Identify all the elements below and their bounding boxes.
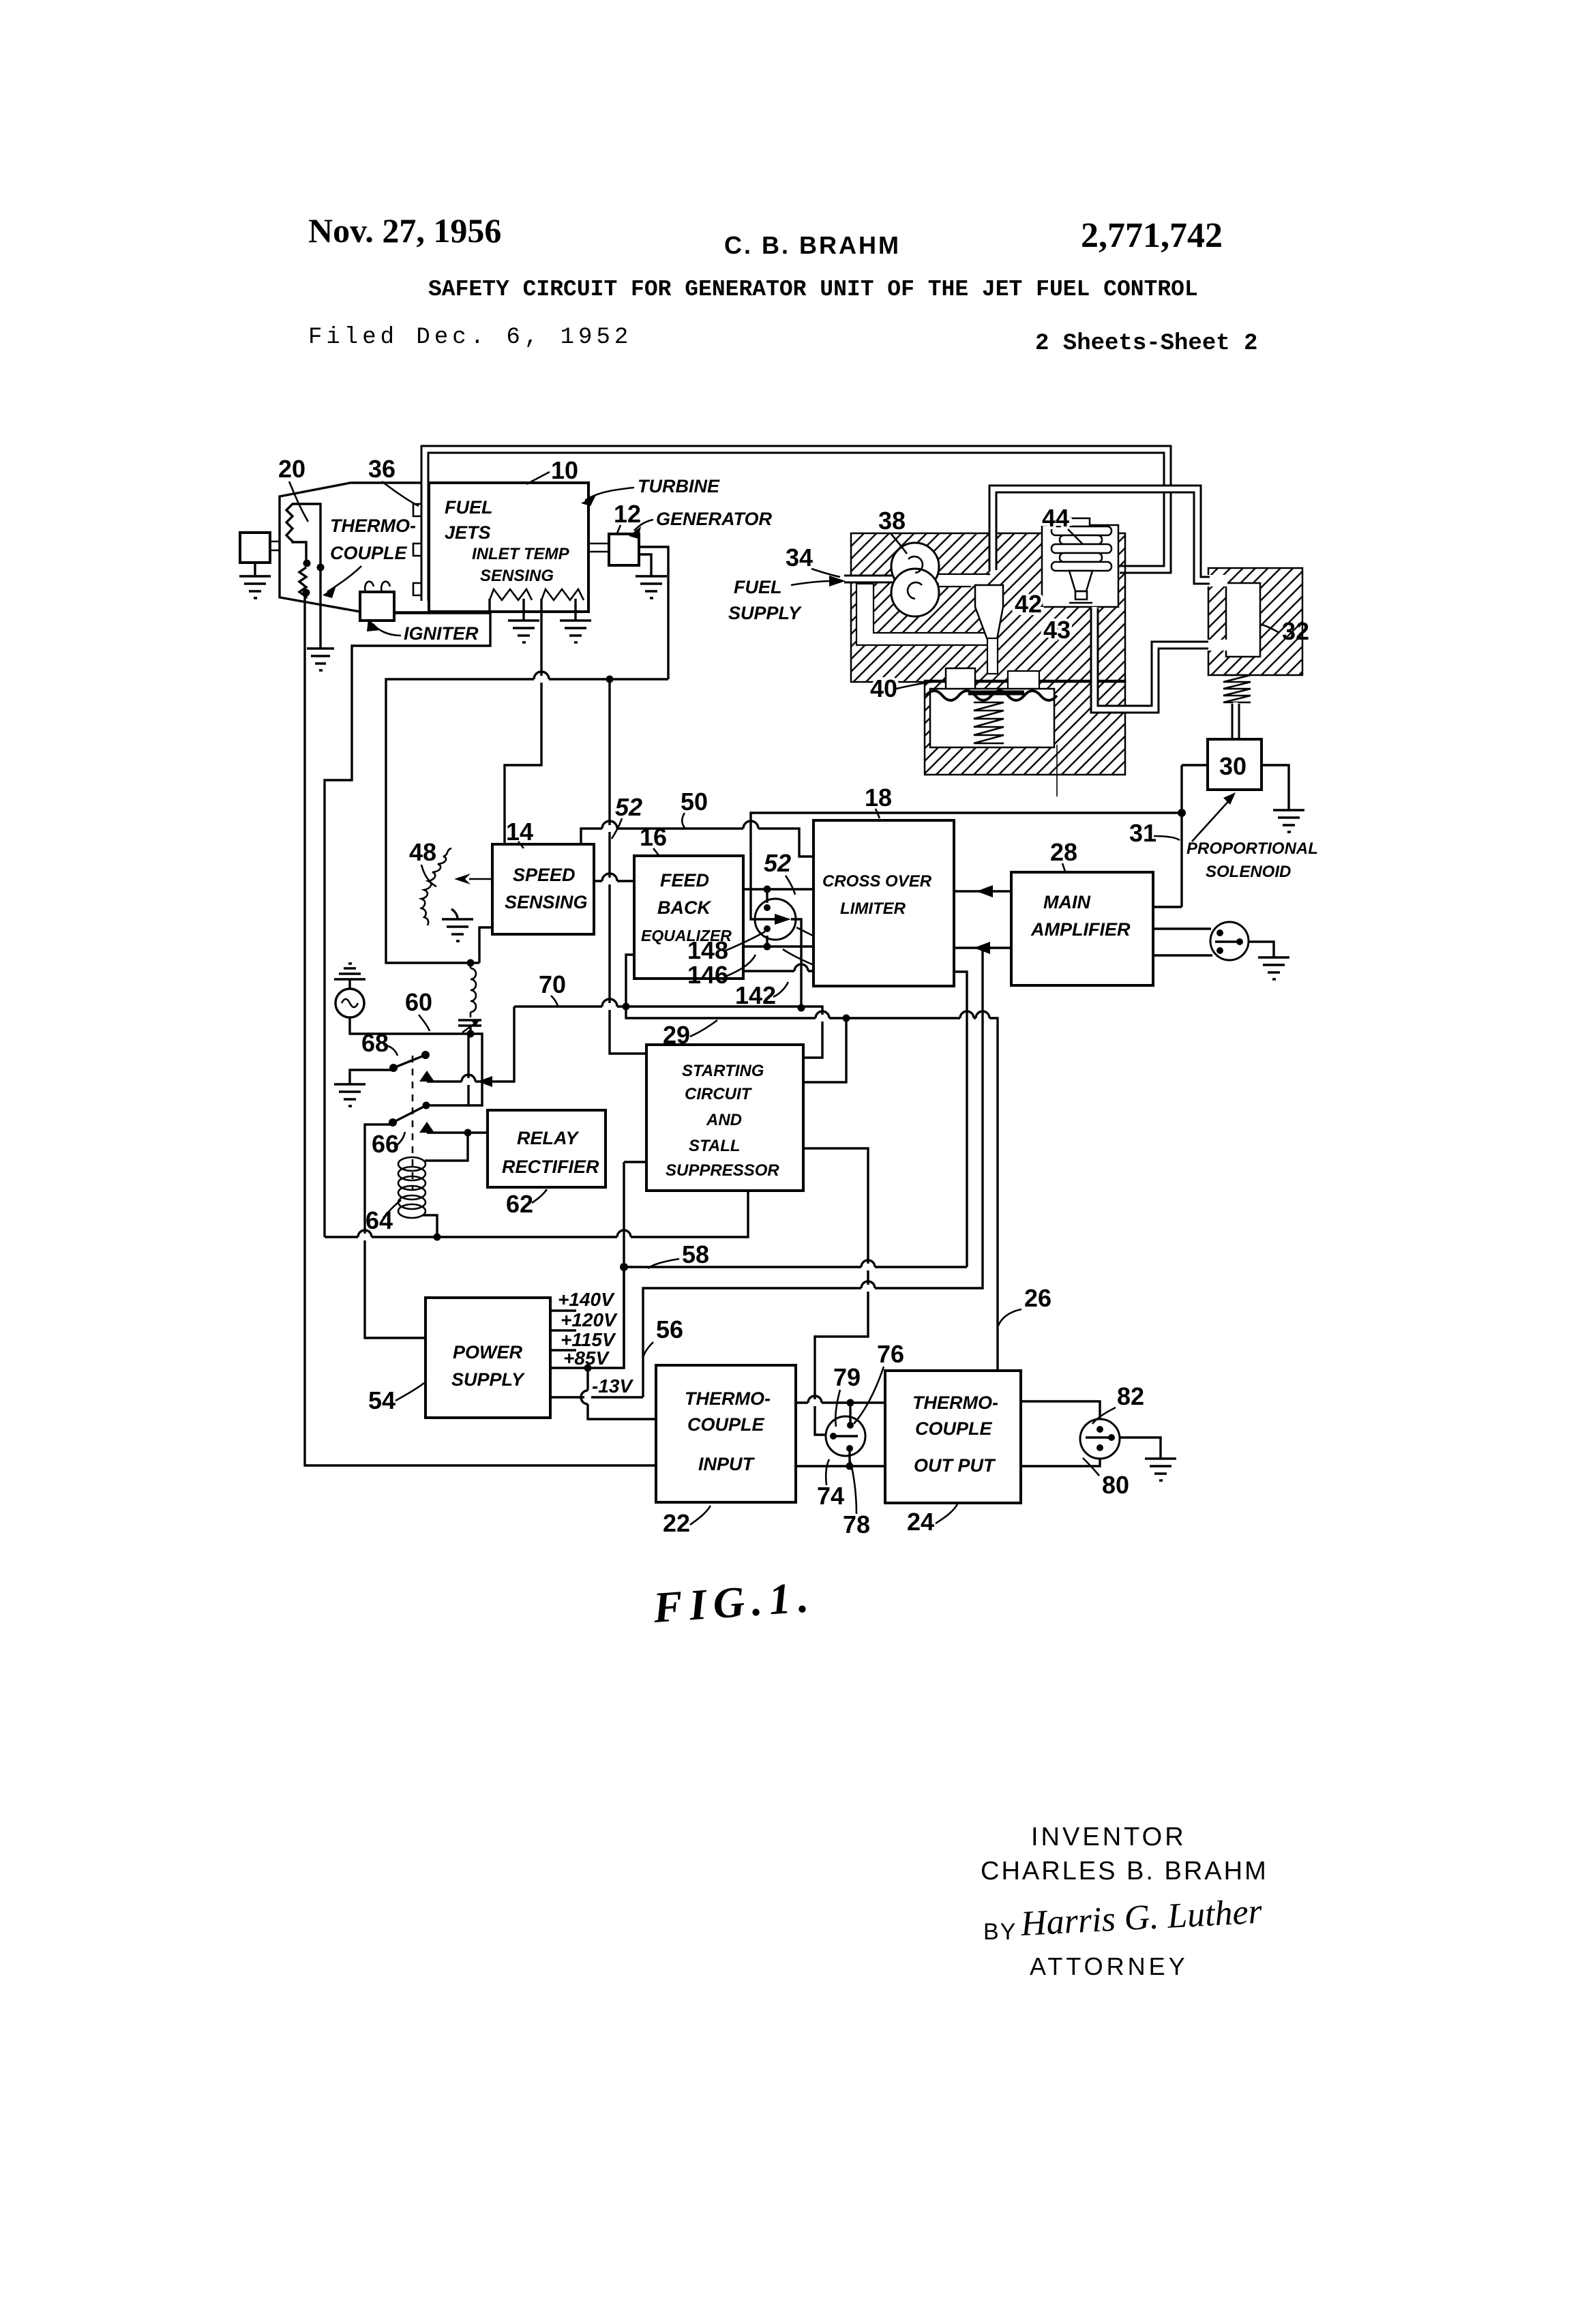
svg-text:16: 16 [640, 823, 667, 851]
wire 52: generator output down to starting circuit [386, 547, 668, 963]
proportional solenoid box 30 [1208, 739, 1262, 790]
svg-text:Nov. 27, 1956: Nov. 27, 1956 [308, 211, 501, 250]
hop: 50 line over grid riser [743, 821, 758, 832]
svg-text:32: 32 [1282, 617, 1309, 645]
svg-text:RELAY: RELAY [517, 1128, 580, 1148]
ground (pot 48) [442, 919, 473, 941]
svg-text:36: 36 [368, 455, 395, 483]
hop: 68 wire over capacitor leg [462, 1075, 475, 1085]
main amplifier box 28 [1011, 872, 1153, 985]
svg-text:FUEL: FUEL [734, 577, 782, 597]
hop: 996 line over sensing tap [534, 672, 549, 683]
generator box 12 [609, 534, 639, 565]
svg-text:78: 78 [843, 1510, 870, 1538]
fuel inlet pipe 34 [843, 575, 893, 584]
svg-text:18: 18 [865, 784, 892, 811]
hop: +85 branch over -13V line [581, 1390, 591, 1404]
wire 58 [624, 1266, 967, 1268]
wire: output box to tube 80 upper [1021, 1401, 1100, 1421]
svg-text:Filed Dec. 6, 1952: Filed Dec. 6, 1952 [308, 325, 632, 351]
wire: solenoid right lead to ground [1262, 765, 1289, 810]
spring of servo 32 [1223, 675, 1251, 702]
svg-text:62: 62 [506, 1190, 533, 1218]
capacitor (variable) [458, 1020, 481, 1034]
servo slot of 32 [1226, 583, 1260, 657]
svg-text:54: 54 [368, 1386, 395, 1414]
wire: pot 48 to ground [451, 909, 458, 919]
svg-text:142: 142 [735, 981, 776, 1009]
solenoid arrow [1192, 798, 1232, 841]
ground (generator) [636, 576, 667, 598]
svg-text:44: 44 [1042, 504, 1069, 532]
svg-text:COUPLE: COUPLE [687, 1414, 765, 1435]
svg-text:POWER: POWER [453, 1342, 523, 1362]
svg-text:SUPPLY: SUPPLY [451, 1369, 526, 1390]
ground (solenoid 30) [1273, 810, 1304, 832]
wire: relay coil bottom to line 58 feed [423, 1215, 437, 1237]
svg-text:2,771,742: 2,771,742 [1081, 216, 1223, 255]
inductor (speed filter) [467, 959, 475, 967]
igniter plug [360, 592, 394, 621]
wire: crossover to amplifier upper with arrow [954, 890, 1011, 892]
wire: equalizer to crossover mid [743, 945, 814, 947]
igniter electrode curls [365, 582, 390, 592]
hop: 50 line over generator lead [602, 821, 617, 832]
svg-text:LIMITER: LIMITER [840, 899, 906, 918]
svg-text:COUPLE: COUPLE [915, 1418, 993, 1439]
hop: 56 over thermo riser [861, 1281, 875, 1292]
fuel pipe 36 manifold and supply pipe (double line) [425, 449, 1167, 602]
wire: relay coil to contact wire [425, 1133, 468, 1161]
wire: igniter feed down-left to relay line [325, 613, 490, 1237]
svg-text:SPEED: SPEED [513, 865, 576, 885]
wire 56 entry stub: relay line vertical [624, 1162, 646, 1368]
tube 80/82 [1080, 1419, 1120, 1459]
svg-text:SAFETY CIRCUIT FOR GENERATOR U: SAFETY CIRCUIT FOR GENERATOR UNIT OF THE… [428, 277, 1198, 302]
wire: box ground stem [254, 563, 256, 576]
svg-text:RECTIFIER: RECTIFIER [502, 1157, 599, 1177]
fuel jet nozzle notches on manifold 36 [413, 504, 421, 595]
thermocouple 20 probe body [286, 504, 320, 604]
svg-text:CHARLES B. BRAHM: CHARLES B. BRAHM [981, 1857, 1268, 1886]
spring chamber [930, 689, 1054, 747]
wire: amplifier output riser to solenoid node [1153, 765, 1182, 907]
hop: 58 over thermo riser [861, 1260, 875, 1270]
centerline lead [1056, 745, 1058, 796]
pump outlet channel [938, 574, 990, 586]
svg-text:52: 52 [764, 849, 791, 877]
power supply box 54 [426, 1298, 550, 1418]
hop: 29 line over 142 riser [816, 1011, 829, 1022]
resistor R (inlet temp sensing left) [490, 589, 532, 600]
ground (thermocouple probe) [307, 649, 334, 670]
diaphragm 40 [926, 691, 1057, 700]
svg-text:SUPPLY: SUPPLY [728, 603, 803, 623]
svg-text:38: 38 [878, 507, 906, 535]
+115V tap [550, 1349, 576, 1351]
svg-text:BACK: BACK [657, 897, 712, 918]
wire: equalizer to crossover upper [743, 888, 814, 890]
ground (cold junction box) [239, 576, 271, 598]
svg-text:BY: BY [983, 1919, 1017, 1945]
svg-text:+140V: +140V [558, 1289, 615, 1310]
svg-text:66: 66 [372, 1130, 399, 1158]
svg-text:42: 42 [1015, 590, 1042, 618]
svg-text:C. B. BRAHM: C. B. BRAHM [724, 231, 901, 259]
svg-text:THERMO-: THERMO- [912, 1392, 998, 1413]
wire: tube 80 to ground [1120, 1437, 1161, 1459]
svg-text:60: 60 [405, 988, 432, 1016]
wire 70/142: equalizer line across to tube [514, 1007, 822, 1058]
svg-text:50: 50 [681, 788, 708, 816]
svg-text:INVENTOR: INVENTOR [1031, 1823, 1186, 1851]
svg-text:FUEL: FUEL [445, 497, 493, 518]
svg-text:56: 56 [656, 1315, 683, 1343]
svg-text:CROSS OVER: CROSS OVER [822, 872, 932, 891]
solenoid plunger stem [1232, 702, 1240, 738]
wire: sensing tap down to speed sensing box [505, 599, 541, 844]
valve 32 servo block (hatched) [1208, 568, 1302, 675]
pilot pipe from valve 42 to servo 32 [1094, 607, 1210, 709]
valve needle 42 [1069, 571, 1092, 591]
svg-text:AND: AND [706, 1111, 742, 1129]
svg-text:43: 43 [1043, 616, 1071, 644]
junction generator lead [606, 676, 614, 683]
svg-text:34: 34 [786, 543, 813, 571]
wire: 29 branch into starting circuit [803, 1018, 846, 1082]
svg-text:68: 68 [361, 1029, 389, 1057]
bellows 44 [1071, 518, 1090, 526]
pipe openings into 32 [1207, 575, 1227, 586]
svg-text:-13V: -13V [592, 1375, 633, 1397]
svg-text:76: 76 [877, 1340, 904, 1368]
wire: solenoid left lead [1182, 764, 1208, 766]
+85V tap to line 58 riser [550, 1267, 624, 1368]
ground (left sensing resistor) [508, 621, 539, 642]
wire: crossover to amplifier lower with arrow [954, 947, 1011, 949]
wire: contact 66 to relay rectifier [427, 1131, 488, 1133]
svg-text:FEED: FEED [660, 870, 709, 891]
valve seat pocket [1008, 671, 1039, 694]
wire: input to output upper row [796, 1401, 885, 1403]
metering window 40 [946, 668, 975, 696]
wire: thermocouple inner lead to ground [319, 604, 321, 649]
svg-text:STALL: STALL [689, 1137, 741, 1155]
svg-text:79: 79 [833, 1363, 861, 1391]
wire: speed sensing to feedback equalizer [594, 880, 634, 882]
spring under diaphragm 40 [974, 702, 1004, 743]
wire 50: speed sensing to crossover limiter [581, 829, 814, 856]
svg-text:82: 82 [1117, 1382, 1144, 1410]
svg-text:31: 31 [1129, 819, 1156, 847]
svg-text:THERMO-: THERMO- [685, 1388, 771, 1409]
contact of switch 66 [419, 1122, 434, 1133]
fuel control valve body (hatched) [851, 533, 1125, 682]
wire: starting circuit to tube 74 plate [803, 1148, 868, 1435]
hop: relay line over line 58 riser [617, 1230, 631, 1240]
svg-text:CIRCUIT: CIRCUIT [685, 1085, 753, 1103]
svg-text:52: 52 [615, 793, 642, 821]
svg-text:INPUT: INPUT [698, 1454, 756, 1474]
svg-text:AMPLIFIER: AMPLIFIER [1030, 919, 1131, 940]
svg-text:80: 80 [1102, 1471, 1129, 1499]
ground (above AC source) [334, 964, 365, 979]
svg-text:ATTORNEY: ATTORNEY [1030, 1952, 1189, 1980]
svg-text:STARTING: STARTING [682, 1062, 764, 1080]
wire: equalizer to crossover lower [743, 970, 814, 972]
wire 70: contact 68 up to equalizer line [427, 1007, 514, 1082]
hop: 70 line over generator lead [602, 999, 617, 1010]
+140V tap [550, 1309, 576, 1311]
starting circuit box 29 [646, 1045, 803, 1191]
wire 56: -13V to amplifier input riser [643, 948, 983, 1397]
AC source 60 [348, 979, 350, 989]
wire 52: generator lead down to starting circuit box [610, 679, 646, 1054]
wire 58: crossover bottom to line 58 [954, 972, 967, 1267]
junction line 58 [620, 1263, 628, 1271]
svg-text:74: 74 [817, 1482, 844, 1510]
svg-text:22: 22 [663, 1509, 690, 1537]
svg-text:OUT PUT: OUT PUT [914, 1455, 996, 1476]
svg-text:30: 30 [1219, 752, 1247, 780]
wire: box to probe (double stub) [270, 541, 280, 550]
tube 52 (feedback valve) [755, 899, 796, 940]
svg-text:24: 24 [907, 1508, 934, 1536]
relay coil 64 [398, 1157, 426, 1218]
svg-text:GENERATOR: GENERATOR [656, 509, 773, 529]
hop: 29 line over crossover riser [960, 1011, 974, 1022]
ground (amplifier output tube) [1258, 957, 1289, 979]
wire 29: equalizer left stub down and across [626, 955, 998, 1371]
svg-text:THERMO-: THERMO- [330, 516, 416, 536]
wire: thermocouple long lead down left side [305, 593, 656, 1465]
svg-text:20: 20 [278, 455, 305, 483]
hop: lower wire over plate riser [794, 964, 808, 974]
svg-text:58: 58 [682, 1240, 709, 1268]
svg-text:INLET TEMP: INLET TEMP [472, 545, 570, 563]
venturi chamber below bellows [975, 585, 1003, 640]
svg-text:MAIN: MAIN [1043, 892, 1090, 912]
wire: output box to tube 80 lower [1021, 1457, 1100, 1466]
-13V tap [550, 1396, 643, 1398]
hop: relay line over switch 66 feed [358, 1230, 372, 1240]
svg-text:SENSING: SENSING [505, 892, 588, 912]
+120V tap [550, 1329, 576, 1331]
resistor R (inlet temp sensing right) [541, 589, 584, 600]
thermocouple cold-junction box [240, 533, 270, 563]
return channel below inlet [856, 584, 989, 645]
wire: +85V branch to thermocouple input [588, 1368, 656, 1419]
hop: over generator lead [602, 874, 617, 884]
ground (right sensing resistor) [560, 621, 591, 642]
svg-text:70: 70 [539, 970, 566, 998]
speed sensing box 14 [492, 844, 594, 934]
svg-text:10: 10 [551, 456, 578, 484]
svg-text:JETS: JETS [445, 522, 491, 543]
svg-text:28: 28 [1050, 838, 1077, 866]
wire: tube 52 plate to 142 line [791, 919, 801, 1008]
servo pipe upper branch [993, 489, 1211, 580]
dashed relay linkage [412, 1056, 414, 1190]
svg-text:12: 12 [614, 500, 641, 528]
wire: generator ground stem [639, 554, 651, 576]
switch 66 [389, 1118, 397, 1127]
ground (tube 80) [1145, 1459, 1176, 1480]
contact of switch 68 [419, 1071, 434, 1082]
turbine box 10 [429, 483, 588, 612]
potentiometer 48 winding [421, 848, 451, 925]
svg-text:14: 14 [506, 818, 533, 846]
wire: amplifier to output tube (two leads) [1153, 929, 1212, 955]
turbine housing 10 outline with inlet [280, 483, 433, 612]
wire: AC source to switch rail [350, 1017, 482, 1105]
svg-text:148: 148 [687, 936, 728, 964]
svg-text:COUPLE: COUPLE [330, 543, 408, 563]
shaft turbine to generator (double line) [588, 543, 609, 552]
svg-text:PROPORTIONAL: PROPORTIONAL [1186, 839, 1318, 858]
junction node on thermocouple lead [303, 560, 311, 567]
svg-text:TURBINE: TURBINE [638, 476, 720, 496]
crossover limiter box 18 [814, 820, 954, 986]
svg-text:2 Sheets-Sheet 2: 2 Sheets-Sheet 2 [1035, 331, 1257, 357]
svg-text:SENSING: SENSING [480, 567, 554, 585]
tube 74/76/78/79 [826, 1416, 865, 1456]
wiper arrow into 48 [469, 878, 492, 880]
svg-text:26: 26 [1024, 1284, 1051, 1312]
switch 68 [389, 1064, 398, 1072]
thermocouple input box 22 [656, 1365, 796, 1502]
thermocouple output box 24 [885, 1371, 1021, 1503]
wire: tube 52 grid riser to solenoid node [751, 813, 1182, 919]
svg-text:40: 40 [870, 674, 897, 702]
output tube at amplifier [1210, 922, 1249, 960]
svg-text:IGNITER: IGNITER [404, 623, 479, 644]
svg-text:146: 146 [687, 961, 728, 989]
relay rectifier box 62 [488, 1110, 606, 1187]
hop: 29 line over amplifier riser [976, 1011, 989, 1022]
svg-text:+120V: +120V [561, 1309, 618, 1330]
svg-text:48: 48 [409, 838, 436, 866]
svg-text:SUPPRESSOR: SUPPRESSOR [666, 1161, 779, 1180]
feed back equalizer box 16 [634, 856, 743, 979]
gear pump 38 [891, 543, 939, 591]
wire: igniter relay line to starting circuit [325, 1191, 748, 1237]
ground (switch 68) [334, 1084, 365, 1106]
wire: input to output lower row [796, 1465, 885, 1467]
bellows chamber [1042, 525, 1118, 607]
junction: equalizer stub on 70 line [623, 1003, 630, 1011]
svg-text:SOLENOID: SOLENOID [1206, 863, 1291, 881]
